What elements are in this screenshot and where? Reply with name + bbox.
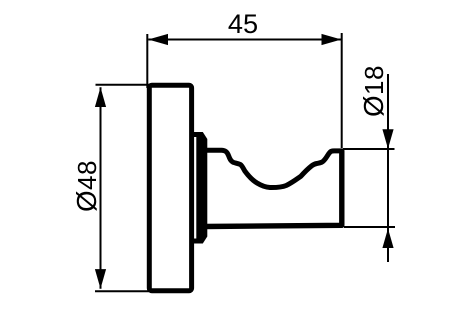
dimension D18: top arrowhead (outside, pointing down) (382, 129, 393, 149)
wall plate (side view of round wall rosette) (149, 85, 191, 290)
dimension D18: extension line bottom (344, 226, 395, 228)
dimension D48: bottom arrowhead (95, 269, 106, 289)
hook arm end face and bottom line (205, 151, 342, 227)
dimension D48: dimension line (100, 87, 102, 288)
dimension D18: dimension line (387, 74, 389, 262)
dimension D48: extension line top (96, 84, 150, 86)
hook arm top profile (205, 150, 342, 187)
svg-text:Ø18: Ø18 (358, 65, 389, 117)
collar / flange between plate and hook body (192, 132, 208, 244)
dimension 45: extension line right (341, 33, 343, 148)
svg-text:Ø48: Ø48 (71, 160, 102, 212)
dimension 45: right arrowhead (322, 34, 342, 45)
dimension D48: top arrowhead (95, 87, 106, 107)
dimension 45: left arrowhead (148, 34, 168, 45)
dimension D18: extension line top (343, 148, 395, 150)
svg-text:45: 45 (228, 8, 258, 39)
dimension D18: bottom arrowhead (outside, pointing up) (382, 229, 393, 249)
dimension 45: dimension line (148, 39, 341, 41)
dimension 45: extension line left (146, 34, 148, 88)
dimension D48: extension line bottom (95, 290, 149, 292)
